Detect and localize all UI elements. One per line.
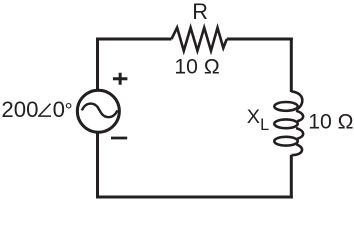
inductor L coil exit hook (292, 144, 302, 155)
svg-text:X: X (247, 106, 260, 128)
wire top horizontal right (resistor to top-right corner) (227, 38, 293, 41)
inductor L coil loop 1 (274, 102, 297, 111)
voltage source sine wave (82, 104, 118, 118)
svg-text:10 Ω: 10 Ω (308, 111, 353, 134)
wire right vertical upper (corner to inductor top) (290, 38, 293, 93)
svg-text:200: 200 (1, 97, 38, 122)
plus polarity mark (113, 73, 128, 85)
svg-text:L: L (260, 116, 269, 134)
svg-text:10 Ω: 10 Ω (174, 55, 219, 78)
wire bottom horizontal (96, 196, 293, 199)
inductor L coil connector 2-3 (296, 128, 303, 139)
voltage source V1 circle (77, 90, 119, 132)
svg-text:0: 0 (53, 97, 65, 122)
wire left vertical (source top to top-left corner) (96, 38, 99, 90)
resistor R (172, 28, 227, 51)
inductor L coil connector 1-2 (296, 111, 303, 122)
inductor L coil loop 3 (274, 137, 297, 146)
svg-text:°: ° (65, 100, 73, 122)
inductor L coil loop 2 (274, 119, 297, 128)
svg-text:R: R (192, 0, 208, 24)
label angle symbol (39, 104, 51, 116)
wire right vertical lower (inductor bottom to bottom-right corner) (290, 155, 293, 199)
wire left vertical lower (source bottom to bottom-left corner) (96, 133, 99, 199)
wire top horizontal left (corner to resistor) (96, 38, 172, 41)
minus polarity mark (111, 137, 127, 140)
inductor L coil entry hook (291, 91, 302, 109)
